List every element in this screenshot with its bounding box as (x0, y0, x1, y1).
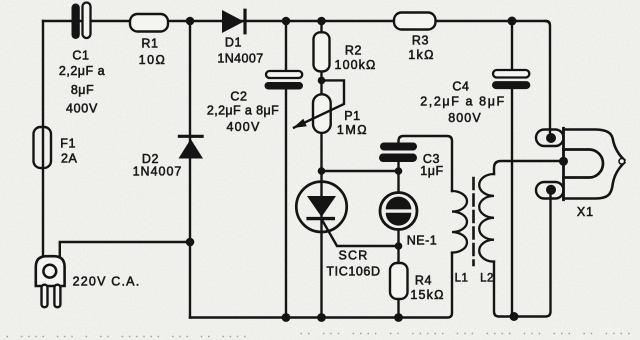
svg-text:D1: D1 (225, 36, 242, 50)
svg-text:F1: F1 (60, 137, 76, 151)
svg-text:400V: 400V (227, 120, 261, 134)
wire C3 NE-1 R4 column (397, 163, 399, 318)
node D2 top (186, 17, 195, 26)
node R4 bottom (394, 313, 403, 322)
svg-text:2,2μF a: 2,2μF a (59, 64, 105, 78)
plug 220V C.A. (36, 256, 65, 286)
svg-text:R2: R2 (345, 44, 362, 58)
node C4 top (508, 17, 517, 26)
svg-text:R1: R1 (141, 37, 158, 51)
svg-text:NE-1: NE-1 (407, 234, 437, 248)
node C4 bottom (510, 312, 519, 321)
node C2 top (282, 17, 291, 26)
svg-text:C1: C1 (72, 49, 89, 63)
svg-text:L1: L1 (455, 273, 469, 285)
wire left vertical from top rail to plug (42, 21, 44, 256)
resistor R2 (314, 32, 330, 71)
svg-text:L2: L2 (480, 273, 494, 285)
wire bottom left rail (190, 253, 452, 318)
wire L2 top to X1 trigger (494, 161, 560, 174)
svg-text:TIC106D: TIC106D (326, 265, 380, 279)
capacitor C4 (493, 70, 529, 78)
svg-text:10Ω: 10Ω (139, 53, 167, 67)
wire top-right drop to X1 anode (546, 21, 550, 132)
SCR TIC106D (296, 182, 346, 232)
svg-text:220V C.A.: 220V C.A. (73, 274, 141, 288)
svg-text:C2: C2 (230, 90, 247, 104)
svg-text:800V: 800V (448, 111, 482, 125)
svg-text:2,2μF a 8μF: 2,2μF a 8μF (420, 95, 506, 109)
wire D2 column vertical (189, 21, 191, 318)
svg-text:1kΩ: 1kΩ (408, 48, 434, 62)
node plug neutral (186, 238, 195, 247)
xenon tube X1 (536, 128, 625, 199)
resistor R1 (130, 14, 168, 32)
node SCR cathode bottom (317, 313, 326, 322)
svg-text:R4: R4 (415, 274, 432, 288)
svg-text:1MΩ: 1MΩ (337, 123, 368, 137)
capacitor C1 (72, 4, 80, 40)
svg-text:1N4007: 1N4007 (133, 165, 183, 179)
svg-text:P1: P1 (344, 109, 361, 123)
wire top rail (43, 20, 546, 22)
svg-text:X1: X1 (577, 205, 594, 219)
capacitor C3 (380, 143, 417, 151)
diode D2 (179, 139, 204, 159)
node gate NE-1 (395, 242, 403, 250)
wire C3 top to L1 (399, 136, 453, 191)
inductor L2 secondary coil (479, 174, 494, 262)
svg-text:1N4007: 1N4007 (217, 52, 263, 66)
resistor R3 (394, 13, 436, 30)
X1 trigger dot (559, 157, 568, 166)
node P1 wiper (318, 77, 326, 85)
wire bottom right segment (494, 192, 551, 317)
diode D1 (222, 10, 244, 33)
wire C2 column (285, 21, 287, 318)
potentiometer P1 (313, 94, 331, 133)
resistor R4 (390, 263, 408, 299)
transformer core dashed line (472, 178, 475, 265)
inductor L1 primary coil (452, 191, 467, 253)
svg-text:2A: 2A (61, 152, 78, 166)
node C2 bottom (282, 313, 291, 322)
fuse F1 (34, 127, 52, 168)
svg-text:8μF: 8μF (71, 83, 94, 97)
svg-text:R3: R3 (412, 34, 429, 48)
wire plug neutral to D2 column (60, 242, 190, 256)
svg-text:400V: 400V (66, 102, 98, 116)
ghost print at bottom edge (6, 326, 630, 339)
svg-text:15kΩ: 15kΩ (410, 288, 444, 302)
node SCR anode (318, 167, 326, 175)
svg-text:1μF: 1μF (420, 164, 444, 178)
svg-text:2,2μF a 8μF: 2,2μF a 8μF (207, 104, 279, 118)
X1 electrode dot bottom (546, 185, 556, 195)
svg-text:SCR: SCR (339, 249, 369, 263)
wire C4 column (511, 21, 513, 317)
node C3 bottom (395, 167, 403, 175)
svg-text:C4: C4 (452, 79, 469, 93)
wire SCR gate to NE-1 node (322, 219, 399, 246)
wire P1 to C3 node horizontal (322, 170, 399, 172)
X1 electrode dot top (546, 133, 556, 143)
capacitor C2 (266, 71, 302, 78)
svg-text:100kΩ: 100kΩ (335, 58, 377, 72)
wire R2 P1 SCR column (320, 21, 322, 318)
neon lamp NE-1 (380, 193, 417, 230)
node R2 top (317, 17, 326, 26)
